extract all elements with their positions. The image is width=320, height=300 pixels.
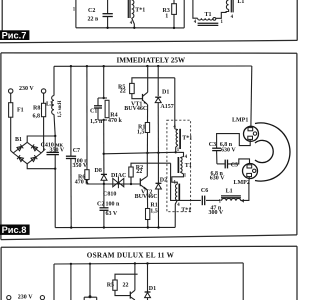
svg-text:C5: C5 [231, 162, 238, 168]
svg-text:22: 22 [120, 88, 126, 94]
svg-text:C2: C2 [88, 8, 95, 14]
svg-text:350 V: 350 V [50, 147, 65, 153]
svg-text:Т*1: Т*1 [135, 7, 145, 13]
svg-text:1,5 мкН: 1,5 мкН [58, 100, 63, 117]
svg-text:R1: R1 [150, 202, 157, 208]
svg-text:C3: C3 [209, 142, 216, 148]
svg-text:Рис.8: Рис.8 [2, 225, 27, 235]
svg-text:C7: C7 [73, 148, 80, 154]
svg-text:470 k: 470 k [108, 118, 123, 124]
svg-text:LMP1: LMP1 [232, 118, 248, 124]
svg-text:230 V: 230 V [18, 295, 33, 300]
svg-text:230 V: 230 V [19, 86, 34, 92]
svg-text:630 V: 630 V [210, 176, 225, 182]
svg-text:1,5 n: 1,5 n [90, 119, 103, 125]
svg-text:C6: C6 [201, 188, 208, 194]
svg-text:T*1: T*1 [181, 208, 191, 214]
svg-text:BUV46C: BUV46C [135, 194, 158, 200]
svg-text:63 V: 63 V [106, 211, 118, 217]
svg-text:1: 1 [165, 14, 168, 20]
svg-text:L2: L2 [46, 101, 53, 107]
svg-text:1,5: 1,5 [137, 129, 145, 135]
svg-text:100 n: 100 n [106, 202, 121, 208]
svg-text:300 V: 300 V [209, 210, 224, 216]
svg-text:+: + [43, 147, 47, 153]
svg-text:T*1: T*1 [182, 136, 192, 142]
svg-text:350 V: 350 V [73, 163, 88, 169]
svg-text:1,5: 1,5 [150, 208, 158, 214]
svg-text:Рис.7: Рис.7 [2, 30, 27, 40]
svg-text:T1: T1 [185, 163, 192, 169]
svg-text:R5: R5 [107, 283, 114, 289]
svg-text:6,8: 6,8 [33, 114, 41, 120]
svg-text:D1: D1 [162, 90, 169, 96]
svg-text:22: 22 [136, 169, 142, 175]
svg-text:L1: L1 [226, 188, 233, 194]
svg-text:B1: B1 [15, 137, 22, 143]
svg-text:D8: D8 [95, 168, 102, 174]
svg-text:630 V: 630 V [221, 148, 236, 154]
svg-text:L1: L1 [237, 0, 244, 5]
svg-text:A157: A157 [160, 104, 173, 110]
svg-text:DIAC: DIAC [111, 173, 126, 179]
svg-text:IMMEDIATELY 25W: IMMEDIATELY 25W [117, 56, 186, 64]
svg-text:T1: T1 [205, 12, 212, 18]
svg-text:R8: R8 [33, 106, 40, 112]
svg-text:C1: C1 [90, 109, 97, 115]
svg-text:D2: D2 [160, 178, 167, 184]
svg-text:22: 22 [123, 283, 129, 289]
svg-text:470 k: 470 k [75, 180, 90, 186]
svg-text:BUV46C: BUV46C [124, 106, 147, 112]
svg-text:LMP2: LMP2 [234, 180, 250, 186]
svg-text:C2: C2 [97, 202, 104, 208]
svg-text:22 в: 22 в [88, 17, 100, 23]
svg-text:D1: D1 [149, 286, 156, 292]
svg-text:C810: C810 [103, 191, 116, 197]
svg-text:OSRAM DULUX EL 11 W: OSRAM DULUX EL 11 W [87, 252, 175, 260]
svg-text:F1: F1 [17, 108, 24, 114]
